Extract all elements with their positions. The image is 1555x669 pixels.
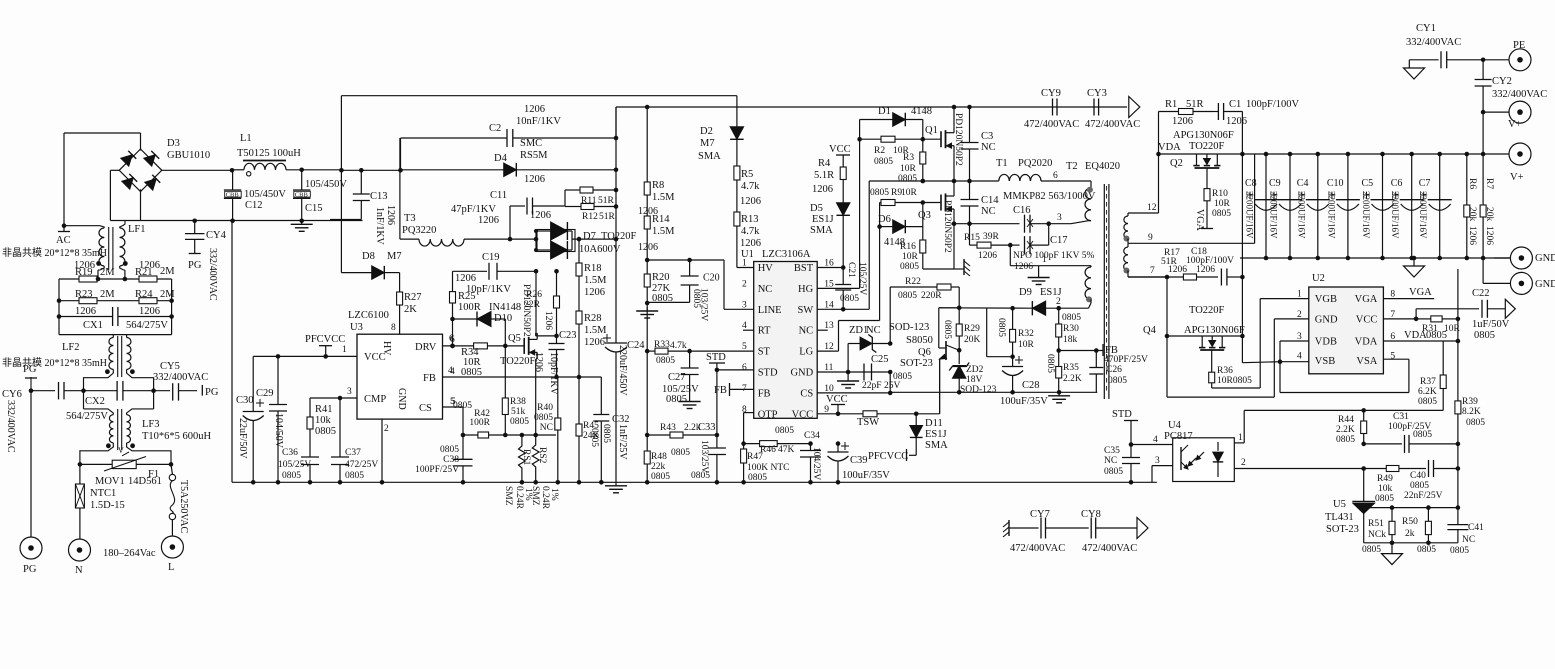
svg-text:20k: 20k	[1484, 207, 1494, 222]
svg-text:4.7k: 4.7k	[741, 181, 760, 192]
capacitor C1	[1213, 99, 1300, 154]
svg-text:D3: D3	[167, 138, 180, 149]
resistor R15	[964, 224, 1010, 261]
capacitor C30	[236, 356, 264, 484]
svg-text:2200UF/16V: 2200UF/16V	[1418, 191, 1428, 239]
wire input bottom rail	[110, 220, 362, 222]
svg-text:R44: R44	[1338, 415, 1354, 425]
resistor R13	[734, 212, 761, 268]
svg-text:7: 7	[1150, 266, 1155, 276]
connector V+ 2	[1483, 143, 1531, 183]
svg-text:M7: M7	[387, 251, 402, 262]
svg-text:SMZ: SMZ	[530, 486, 540, 506]
svg-text:1206: 1206	[1196, 265, 1215, 275]
svg-text:22R: 22R	[524, 300, 541, 310]
svg-text:1: 1	[1042, 255, 1047, 265]
transistor Q4	[1143, 277, 1245, 350]
svg-text:1206: 1206	[638, 242, 658, 253]
wire pin3	[1049, 213, 1089, 224]
capacitor C36	[278, 448, 319, 485]
svg-text:SMZ: SMZ	[503, 486, 513, 506]
svg-text:FB: FB	[758, 388, 771, 399]
svg-text:Q1: Q1	[925, 125, 938, 136]
svg-text:C4: C4	[1297, 178, 1309, 189]
transistor Q5	[500, 284, 537, 367]
resistor R16	[900, 227, 954, 272]
svg-text:0805: 0805	[345, 471, 364, 481]
resistor R19	[59, 267, 172, 282]
wire U2 VDA pin	[1383, 330, 1460, 343]
svg-text:R20: R20	[652, 272, 670, 283]
resistor R36	[1209, 350, 1252, 389]
svg-text:2200UF/16V: 2200UF/16V	[1390, 191, 1400, 239]
label LF2	[62, 342, 80, 353]
svg-text:12: 12	[1147, 203, 1157, 213]
svg-text:3: 3	[1057, 213, 1062, 223]
svg-text:18k: 18k	[1063, 335, 1078, 345]
svg-text:T3: T3	[404, 213, 416, 224]
svg-text:1.5M: 1.5M	[652, 226, 675, 237]
svg-text:2200UF/16V: 2200UF/16V	[1245, 191, 1255, 239]
svg-text:2M: 2M	[160, 266, 175, 277]
wire FB L1 line	[1244, 408, 1443, 413]
svg-text:0805: 0805	[282, 471, 301, 481]
svg-text:C35: C35	[1104, 446, 1120, 456]
svg-text:C28: C28	[1022, 380, 1040, 391]
wire x341 down	[340, 170, 342, 272]
svg-text:0805: 0805	[1450, 546, 1469, 556]
svg-text:3: 3	[347, 387, 352, 397]
svg-text:BST: BST	[794, 263, 814, 274]
svg-text:APG130N06F: APG130N06F	[1184, 325, 1245, 336]
wire Q4 source down	[1167, 336, 1274, 397]
svg-text:10nF/1KV: 10nF/1KV	[516, 116, 561, 127]
wire rail A	[341, 96, 737, 171]
IC U1 LZC3106A	[741, 249, 834, 420]
svg-text:FB: FB	[714, 385, 727, 396]
svg-text:C11: C11	[490, 190, 507, 201]
connector PG bottom	[20, 537, 42, 575]
wire L4 line	[1369, 505, 1460, 510]
svg-text:104/25V: 104/25V	[811, 447, 821, 480]
capacitor CY2	[1475, 60, 1548, 112]
svg-text:2200UF/16V: 2200UF/16V	[1326, 191, 1336, 239]
capacitor CY5	[153, 361, 219, 401]
svg-text:332/400VAC: 332/400VAC	[1406, 37, 1461, 48]
svg-text:VDA: VDA	[1355, 337, 1378, 348]
resistor R9	[870, 188, 941, 206]
resistor R33	[645, 340, 692, 366]
svg-text:10A600V: 10A600V	[579, 244, 621, 255]
svg-text:C23: C23	[559, 330, 577, 341]
svg-text:1uF/50V: 1uF/50V	[1472, 319, 1510, 330]
svg-text:1206: 1206	[530, 210, 551, 221]
ground under C27	[679, 398, 701, 409]
resistor R22	[890, 277, 959, 344]
wire V+ bus	[1242, 152, 1483, 157]
wire R42 line	[461, 433, 556, 438]
svg-text:0805: 0805	[898, 174, 917, 184]
wire Q5 source	[535, 359, 537, 435]
resistor R1	[1159, 99, 1214, 154]
svg-text:18V: 18V	[966, 375, 983, 385]
svg-text:1206: 1206	[524, 104, 545, 115]
node VDA	[1156, 142, 1181, 156]
resistor TSW	[857, 411, 940, 428]
svg-text:D6: D6	[878, 214, 891, 225]
capacitor C25	[862, 354, 912, 391]
wire bridge DC+	[161, 168, 234, 173]
svg-text:CX2: CX2	[85, 396, 105, 407]
fuse F1	[148, 464, 189, 536]
inductor T1	[996, 158, 1091, 181]
net FB tick U1	[714, 383, 730, 396]
svg-text:1206: 1206	[1168, 265, 1187, 275]
svg-text:SMA: SMA	[925, 440, 948, 451]
IC U3 LZC6100	[342, 310, 456, 434]
svg-text:20K: 20K	[964, 335, 981, 345]
svg-text:47K: 47K	[778, 445, 795, 455]
svg-text:4148: 4148	[911, 106, 932, 117]
svg-text:Q6: Q6	[918, 347, 931, 358]
capacitor C12	[224, 170, 287, 223]
svg-text:220uF/450V: 220uF/450V	[617, 345, 628, 396]
wire OTP pin	[741, 413, 753, 446]
svg-text:C21: C21	[846, 262, 856, 278]
svg-text:1: 1	[1238, 433, 1243, 443]
svg-text:564/275V: 564/275V	[126, 320, 168, 331]
capacitor C26	[1089, 351, 1148, 393]
capacitor C17	[1008, 224, 1094, 272]
svg-text:NC: NC	[540, 423, 553, 433]
wire LF1 to R-block	[98, 270, 125, 279]
wire R33 left column	[646, 303, 648, 435]
svg-text:D4: D4	[494, 153, 508, 164]
svg-text:C27: C27	[668, 372, 686, 383]
svg-text:220R: 220R	[921, 291, 942, 301]
svg-text:R26: R26	[526, 290, 542, 300]
capacitor C8 2200uF/16V	[1245, 154, 1279, 258]
resistor R18	[576, 237, 607, 311]
svg-text:C10: C10	[1327, 178, 1344, 189]
svg-text:C34: C34	[804, 431, 820, 441]
arrow connector CY8	[1137, 518, 1148, 539]
svg-text:0805: 0805	[1362, 545, 1381, 555]
svg-text:U3: U3	[350, 322, 363, 333]
wire AC node to LF1	[64, 226, 104, 228]
label 105/450V C15	[305, 179, 347, 190]
svg-text:25V: 25V	[884, 381, 901, 391]
svg-text:472/400VAC: 472/400VAC	[1082, 543, 1137, 554]
inductor LF2	[84, 335, 154, 381]
svg-text:C12: C12	[245, 200, 263, 211]
capacitor CY4	[185, 219, 227, 301]
capacitor CY3	[1085, 88, 1140, 130]
wire L3 line	[1234, 458, 1386, 471]
wire U3 CMP line	[310, 396, 357, 401]
svg-text:1%: 1%	[549, 488, 559, 501]
zener ZD2	[949, 350, 996, 395]
svg-text:0805: 0805	[898, 291, 917, 301]
wire bridge AC2	[110, 170, 140, 220]
diode D4	[401, 138, 619, 185]
svg-text:472/400VAC: 472/400VAC	[1024, 119, 1079, 130]
resistor RS2 shunt	[520, 435, 547, 485]
connector PE	[1509, 40, 1531, 71]
svg-text:1206: 1206	[584, 287, 605, 298]
wire U3 GND pin	[380, 419, 385, 485]
svg-text:6: 6	[449, 334, 454, 344]
svg-text:2200UF/16V: 2200UF/16V	[1361, 191, 1371, 239]
capacitor C22	[1416, 288, 1510, 341]
svg-text:CY1: CY1	[1416, 23, 1436, 34]
svg-text:CY7: CY7	[1030, 509, 1050, 520]
net VCC tick U1	[826, 394, 848, 414]
svg-text:8: 8	[391, 323, 396, 333]
capacitor C13	[330, 168, 396, 246]
svg-text:D1: D1	[878, 106, 891, 117]
svg-text:2M: 2M	[100, 267, 115, 278]
svg-text:0805: 0805	[1474, 330, 1495, 341]
ground under C15	[291, 221, 313, 232]
svg-text:R23: R23	[75, 289, 93, 300]
svg-text:2K: 2K	[404, 304, 417, 315]
svg-text:105/25V: 105/25V	[857, 262, 867, 295]
transformer T2 primary bottom	[1085, 267, 1092, 308]
resistor R44	[1336, 410, 1367, 446]
svg-text:0805: 0805	[874, 157, 893, 167]
svg-text:C8: C8	[1245, 178, 1257, 189]
svg-text:R37: R37	[1420, 377, 1436, 387]
block CX1 sides	[57, 277, 174, 335]
svg-text:0805: 0805	[691, 471, 710, 481]
capacitor C37	[331, 398, 378, 485]
svg-text:105/450V: 105/450V	[244, 189, 286, 200]
capacitor C4 2200uF/16V	[1296, 154, 1330, 258]
capacitor C3	[961, 105, 996, 184]
svg-text:103/25V: 103/25V	[699, 288, 709, 321]
capacitor C5 2200uF/16V	[1361, 154, 1395, 258]
svg-text:103/25V: 103/25V	[699, 440, 709, 473]
svg-text:C3: C3	[981, 131, 993, 142]
svg-text:MOV1: MOV1	[95, 476, 125, 487]
svg-text:1206: 1206	[75, 306, 96, 317]
resistor R38	[502, 346, 529, 435]
svg-text:10k: 10k	[315, 415, 332, 426]
labels shunt values	[503, 486, 559, 510]
svg-text:VCC: VCC	[792, 409, 814, 420]
svg-text:PG: PG	[23, 364, 37, 375]
label common-mode note 1	[2, 247, 107, 259]
svg-text:R43: R43	[660, 423, 676, 433]
svg-text:R6: R6	[1467, 178, 1477, 189]
svg-text:470PF/25V: 470PF/25V	[1104, 355, 1148, 365]
svg-text:1206: 1206	[543, 311, 553, 330]
resistor R11	[565, 187, 618, 207]
IC U2	[1297, 273, 1395, 374]
IC U4 PC817	[1164, 420, 1234, 482]
svg-text:VGB: VGB	[1315, 294, 1337, 305]
capacitor C35	[1104, 445, 1140, 485]
resistor R42	[453, 401, 491, 438]
svg-text:1206: 1206	[584, 337, 605, 348]
resistor R12	[565, 204, 618, 223]
resistor R25	[450, 291, 481, 319]
svg-text:R22: R22	[905, 277, 921, 287]
wire primary ground rail	[232, 481, 1157, 483]
svg-text:C6: C6	[1391, 178, 1403, 189]
inductor L1	[233, 133, 342, 176]
svg-text:104/50V: 104/50V	[273, 413, 284, 449]
svg-text:1206: 1206	[524, 174, 545, 185]
svg-text:NC: NC	[981, 206, 996, 217]
svg-text:ES1J: ES1J	[812, 214, 834, 225]
wire CS pin U1	[817, 391, 892, 396]
resistor R29	[942, 308, 981, 353]
svg-text:2k: 2k	[1405, 529, 1415, 539]
capacitor C24 220uF/450V	[603, 334, 645, 482]
svg-text:100uF/35V: 100uF/35V	[842, 470, 890, 481]
svg-text:D2: D2	[700, 126, 713, 137]
transistor Q2	[1159, 130, 1245, 169]
svg-text:0805: 0805	[1045, 354, 1055, 373]
svg-text:2: 2	[1241, 458, 1246, 468]
wire VCC pin9	[817, 412, 863, 417]
svg-text:EQ4020: EQ4020	[1085, 161, 1120, 172]
wire LF1 right to bottom rail	[120, 221, 125, 229]
svg-text:CS: CS	[800, 388, 813, 399]
resistor R43	[645, 423, 717, 458]
svg-text:C17: C17	[1050, 235, 1068, 246]
wire R36 loop to VGB	[1212, 299, 1309, 388]
wire U2 GND loop	[1274, 319, 1309, 397]
svg-text:VDA: VDA	[1158, 142, 1181, 153]
svg-text:2M: 2M	[160, 289, 175, 300]
svg-text:HG: HG	[798, 284, 814, 295]
svg-text:R49: R49	[1377, 474, 1393, 484]
svg-text:RS2: RS2	[537, 447, 547, 464]
svg-text:CY4: CY4	[206, 230, 227, 241]
transistor Q1	[925, 113, 963, 166]
svg-text:LG: LG	[799, 347, 813, 358]
wire CY6 to PG conn	[30, 391, 32, 537]
svg-text:LF2: LF2	[62, 342, 80, 353]
resistor R37	[1418, 341, 1446, 410]
svg-text:LZC3106A: LZC3106A	[762, 249, 811, 260]
svg-text:FB: FB	[423, 373, 436, 384]
inductor T3	[400, 138, 512, 246]
svg-text:R8: R8	[652, 180, 664, 191]
resistor R23	[59, 289, 172, 304]
svg-text:51R: 51R	[1186, 99, 1204, 110]
svg-text:1206: 1206	[533, 352, 544, 372]
svg-text:C15: C15	[305, 203, 323, 214]
svg-text:R2: R2	[874, 146, 885, 156]
wire LF3 to MOV row	[78, 443, 174, 467]
svg-text:1.5M: 1.5M	[584, 325, 607, 336]
net STD secondary	[1112, 409, 1138, 445]
svg-text:GND: GND	[1535, 279, 1555, 290]
ground triangle V- bus	[1404, 256, 1425, 277]
svg-text:PFCVCC: PFCVCC	[868, 451, 908, 462]
svg-text:0805: 0805	[775, 426, 794, 436]
diode D10	[450, 302, 521, 348]
svg-text:C2: C2	[489, 123, 501, 134]
svg-text:L: L	[168, 562, 174, 573]
svg-text:NPO 100pF 1KV 5%: NPO 100pF 1KV 5%	[1013, 251, 1094, 261]
svg-text:PD120N50P2: PD120N50P2	[942, 200, 952, 253]
wire U2 VDB loop	[1278, 341, 1409, 393]
svg-text:0805: 0805	[1418, 397, 1437, 407]
resistor R17	[1128, 248, 1218, 280]
svg-text:0.24R: 0.24R	[514, 486, 524, 510]
svg-text:0805: 0805	[942, 320, 952, 339]
label T2 EQ4020	[1053, 161, 1120, 181]
chassis ground CY7	[1003, 520, 1009, 537]
wire U2 VCC pin	[1383, 317, 1418, 322]
svg-text:STD: STD	[758, 368, 778, 379]
svg-text:C33: C33	[698, 422, 716, 433]
svg-text:51R: 51R	[598, 196, 615, 206]
svg-text:100K NTC: 100K NTC	[747, 463, 790, 473]
connector V+ 1	[1481, 101, 1531, 154]
node AC label	[56, 223, 71, 246]
svg-text:1206: 1206	[1484, 226, 1494, 245]
resistor R50	[1402, 508, 1436, 555]
svg-text:5: 5	[1390, 352, 1395, 362]
label common-mode note 2	[2, 357, 107, 369]
svg-text:C22: C22	[1472, 288, 1490, 299]
svg-text:U2: U2	[1312, 273, 1325, 284]
svg-text:1206: 1206	[1014, 262, 1033, 272]
svg-text:VDA: VDA	[1404, 330, 1427, 341]
label MMKP82	[1003, 191, 1096, 202]
svg-text:NC: NC	[1462, 535, 1475, 545]
svg-text:1.5D-15: 1.5D-15	[90, 500, 125, 511]
capacitor CX1	[59, 307, 172, 331]
svg-text:D11: D11	[925, 418, 943, 429]
label 1206 row	[75, 306, 160, 317]
svg-text:GND: GND	[1535, 253, 1555, 264]
svg-text:C16: C16	[1013, 205, 1031, 216]
ground pin1 winding	[1028, 266, 1050, 285]
svg-text:472/25V: 472/25V	[345, 460, 378, 470]
svg-text:C13: C13	[370, 191, 388, 202]
ground under rail x616	[605, 482, 627, 493]
varistor MOV1	[95, 446, 162, 487]
capacitor CY9	[1024, 88, 1079, 130]
svg-text:SW: SW	[797, 305, 813, 316]
svg-text:1206: 1206	[1226, 116, 1247, 127]
svg-text:0805: 0805	[1108, 376, 1127, 386]
wire VCC aux rail	[890, 390, 1097, 395]
svg-text:472/400VAC: 472/400VAC	[1085, 119, 1140, 130]
svg-text:S8050: S8050	[906, 335, 933, 346]
wire R22 to R29 node	[958, 287, 960, 308]
wire C40 column	[1457, 469, 1459, 508]
diode D2	[698, 96, 744, 166]
svg-text:NC: NC	[758, 284, 773, 295]
svg-text:D5: D5	[810, 203, 823, 214]
svg-text:VSA: VSA	[1356, 356, 1377, 367]
label PG left	[23, 364, 37, 391]
svg-text:0805: 0805	[656, 356, 675, 366]
capacitor C20	[647, 258, 719, 322]
capacitor CY8	[1081, 509, 1137, 554]
resistor R2	[857, 136, 941, 167]
thermistor NTC1	[75, 464, 124, 539]
svg-text:TO220F: TO220F	[601, 231, 637, 242]
